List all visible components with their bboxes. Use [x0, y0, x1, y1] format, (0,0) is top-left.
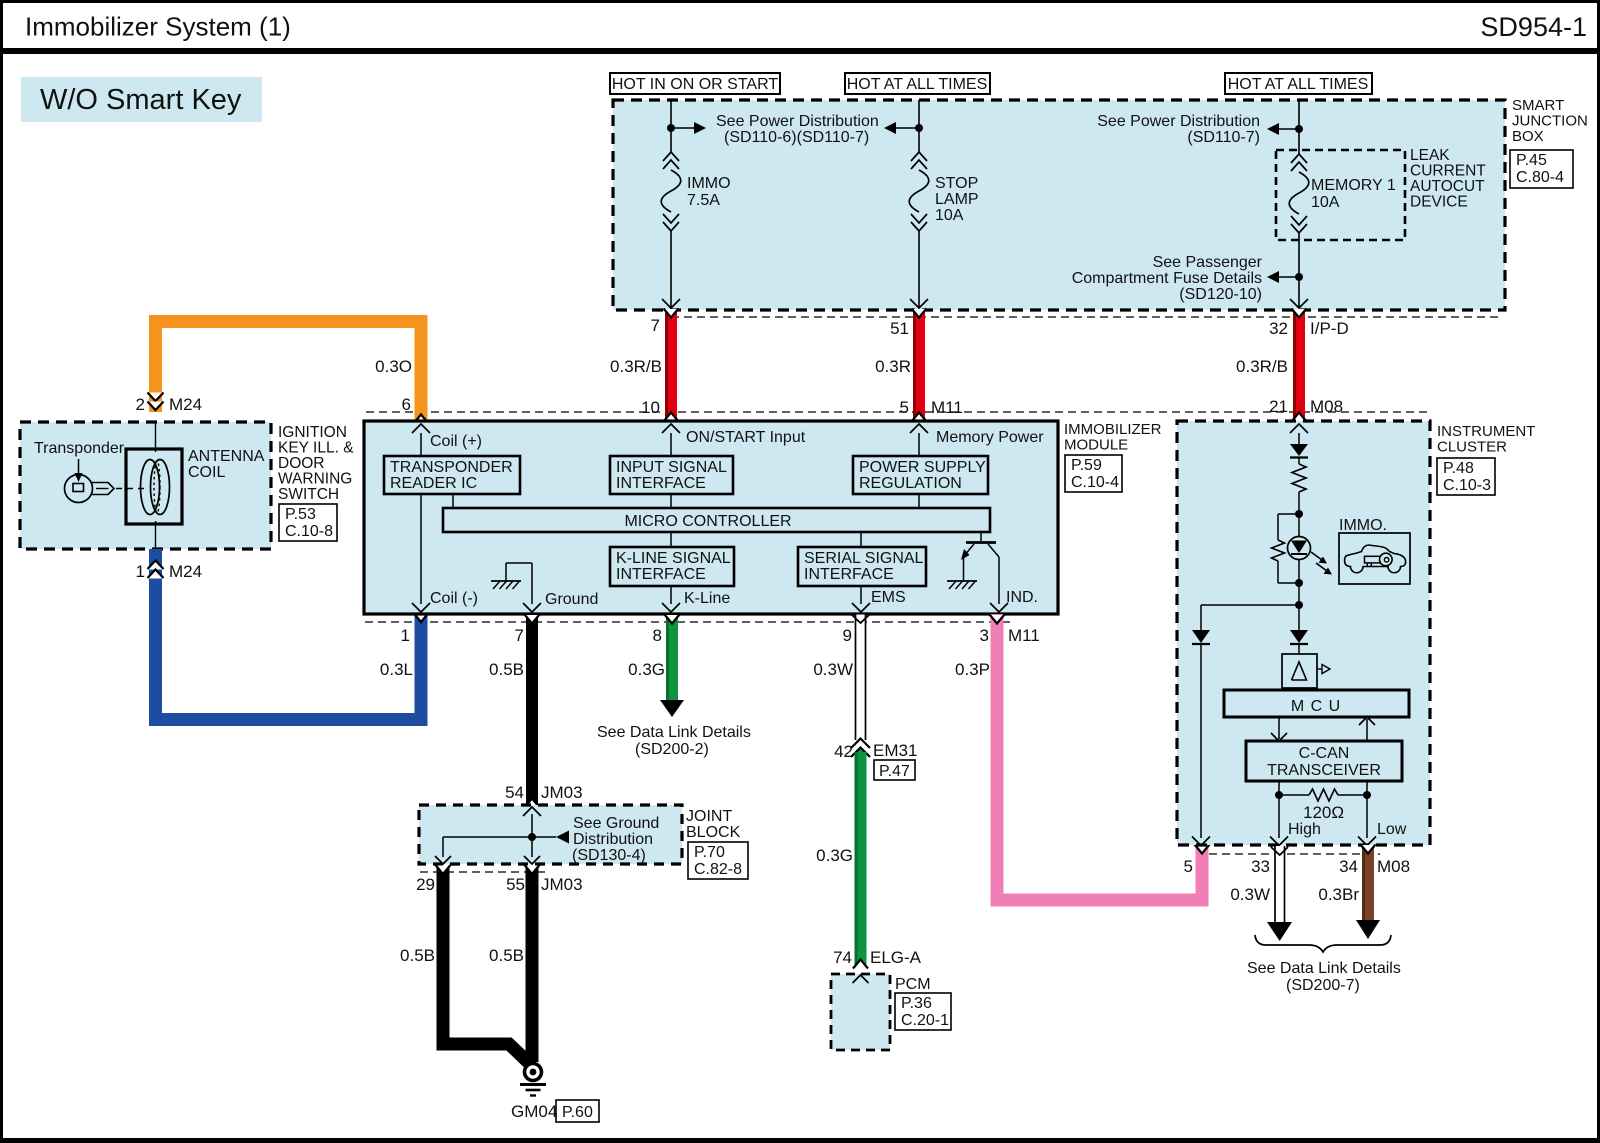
- wire 0.5B pin55 to ground GM04 (black): [526, 866, 539, 1062]
- input signal interface box: [610, 456, 733, 494]
- svg-text:M24: M24: [169, 562, 202, 581]
- svg-text:High: High: [1288, 821, 1321, 838]
- svg-text:See Data Link Details: See Data Link Details: [1247, 960, 1401, 977]
- wire through coil: [155, 422, 157, 452]
- svg-text:C.20-1: C.20-1: [901, 1012, 949, 1029]
- svg-text:SMART: SMART: [1512, 97, 1564, 114]
- module top pin arrows: [412, 424, 430, 433]
- svg-text:0.3G: 0.3G: [628, 660, 665, 679]
- dashed axis key to coil: [116, 488, 147, 490]
- wire 0.3L antenna pin1 to module pin1 (blue): [156, 549, 422, 720]
- arrow to power distribution SD110-7: [1279, 128, 1299, 130]
- node junction led top: [1295, 510, 1303, 518]
- immobilizer module box: [364, 421, 1058, 614]
- ground GM04: [525, 1064, 542, 1081]
- svg-text:DEVICE: DEVICE: [1410, 194, 1468, 211]
- svg-text:INSTRUMENT: INSTRUMENT: [1437, 423, 1535, 440]
- svg-text:ELG-A: ELG-A: [870, 948, 922, 967]
- svg-text:0.3W: 0.3W: [813, 660, 853, 679]
- antenna coil box: [126, 449, 182, 524]
- fuse STOP LAMP 10A: [911, 152, 927, 161]
- svg-text:Ground: Ground: [545, 591, 598, 608]
- svg-text:C.80-4: C.80-4: [1516, 169, 1564, 186]
- arrow to passenger compartment fuse details: [1279, 276, 1299, 278]
- svg-text:3: 3: [980, 626, 989, 645]
- serial signal interface box: [798, 547, 926, 586]
- arrow C-CAN to MCU: [1366, 719, 1368, 741]
- PCM box: [831, 974, 890, 1050]
- svg-text:21: 21: [1269, 397, 1288, 416]
- svg-text:C.10-8: C.10-8: [285, 523, 333, 540]
- svg-text:P.47: P.47: [879, 763, 910, 780]
- svg-text:HOT AT ALL TIMES: HOT AT ALL TIMES: [1228, 76, 1369, 93]
- module internal ground circuit: [531, 563, 533, 604]
- node CAN-H: [1275, 791, 1283, 799]
- svg-text:MEMORY 1: MEMORY 1: [1311, 177, 1396, 194]
- svg-text:0.3L: 0.3L: [380, 660, 413, 679]
- svg-text:9: 9: [843, 626, 852, 645]
- svg-text:P.59: P.59: [1071, 457, 1102, 474]
- svg-text:JUNCTION: JUNCTION: [1512, 113, 1588, 130]
- node junction 3: [1295, 601, 1303, 609]
- wire fuse IMMO to pin 7: [670, 231, 672, 308]
- svg-text:M24: M24: [169, 395, 202, 414]
- wire 0.3R pin51 to pin5 M11 (red): [913, 310, 925, 420]
- svg-text:55: 55: [506, 875, 525, 894]
- coil ellipses: [141, 460, 160, 515]
- svg-text:10: 10: [641, 398, 660, 417]
- node junction C2: [1295, 273, 1303, 281]
- svg-text:JM03: JM03: [541, 875, 583, 894]
- svg-text:CURRENT: CURRENT: [1410, 163, 1486, 180]
- page ref P.59 C.10-4: [1065, 455, 1122, 492]
- svg-text:M11: M11: [1008, 626, 1040, 645]
- svg-text:MODULE: MODULE: [1064, 437, 1128, 454]
- svg-text:HOT AT ALL TIMES: HOT AT ALL TIMES: [847, 76, 988, 93]
- svg-text:See Data Link Details: See Data Link Details: [597, 724, 751, 741]
- micro controller box: [443, 508, 990, 532]
- svg-text:5: 5: [900, 398, 909, 417]
- LED immo indicator: [1288, 537, 1311, 560]
- svg-text:I/P-D: I/P-D: [1310, 319, 1349, 338]
- svg-text:BLOCK: BLOCK: [686, 824, 741, 841]
- svg-text:C.10-4: C.10-4: [1071, 474, 1119, 491]
- resistor 120 ohm: [1279, 794, 1309, 796]
- svg-text:IND.: IND.: [1006, 589, 1038, 606]
- svg-text:TRANSPONDER: TRANSPONDER: [390, 459, 513, 476]
- svg-text:TRANSCEIVER: TRANSCEIVER: [1267, 762, 1381, 779]
- node junction 2: [1295, 579, 1303, 587]
- wire 0.3Br CAN low (brown): [1362, 846, 1374, 920]
- wire 0.3R/B pin7 to pin10 (red): [665, 310, 677, 420]
- car icon: [1345, 545, 1406, 573]
- svg-text:P.60: P.60: [562, 1104, 593, 1121]
- svg-text:120Ω: 120Ω: [1303, 803, 1344, 822]
- svg-text:0.3P: 0.3P: [955, 660, 990, 679]
- svg-text:5: 5: [1184, 857, 1193, 876]
- svg-text:1: 1: [136, 562, 145, 581]
- svg-text:Memory Power: Memory Power: [936, 429, 1044, 446]
- label HOT AT ALL TIMES (right): [1225, 73, 1372, 94]
- cluster entry arrow pin21: [1290, 424, 1308, 433]
- svg-text:32: 32: [1269, 319, 1288, 338]
- connector dashed line below joint block (early): [420, 871, 545, 873]
- MCU box: [1224, 690, 1409, 717]
- connector dashed line below cluster (early): [1196, 853, 1380, 855]
- svg-text:10A: 10A: [1311, 194, 1340, 211]
- svg-text:P.48: P.48: [1443, 460, 1474, 477]
- buffer amp U1: [1282, 654, 1317, 688]
- svg-text:Transponder: Transponder: [34, 440, 125, 457]
- svg-text:(SD130-4): (SD130-4): [572, 847, 646, 864]
- page ref P.36 C.20-1: [895, 993, 951, 1030]
- connector M24 pin1 chevrons: [148, 561, 164, 570]
- svg-text:C.10-3: C.10-3: [1443, 477, 1491, 494]
- instrument cluster box: [1177, 421, 1430, 845]
- wire 0.5B pin29 to ground (black): [443, 866, 531, 1065]
- power supply regulation box: [853, 456, 988, 494]
- svg-text:IGNITION: IGNITION: [278, 424, 347, 441]
- connector EM31 pin42 chevrons: [851, 739, 870, 749]
- module internal wires: [420, 433, 422, 456]
- page ref P.48 C.10-3: [1437, 458, 1495, 495]
- svg-text:M08: M08: [1377, 857, 1410, 876]
- svg-text:JOINT: JOINT: [686, 808, 732, 825]
- svg-text:ON/START Input: ON/START Input: [686, 429, 806, 446]
- node junction A: [667, 124, 675, 132]
- svg-text:0.3R: 0.3R: [875, 357, 911, 376]
- wire 0.3G K-line pin8 (green): [666, 616, 678, 701]
- wire from HOT AT ALL TIMES to fuse MEMORY 1: [1298, 100, 1300, 154]
- svg-text:EMS: EMS: [871, 589, 906, 606]
- connector dashed line below module (early): [365, 621, 1010, 623]
- svg-text:Low: Low: [1377, 821, 1407, 838]
- C-CAN transceiver box: [1246, 741, 1402, 781]
- svg-text:STOP: STOP: [935, 175, 978, 192]
- svg-text:COIL: COIL: [188, 464, 225, 481]
- wire 0.3W EMS pin9 (white): [855, 615, 866, 741]
- transponder reader ic box: [384, 456, 520, 494]
- svg-text:Distribution: Distribution: [573, 831, 653, 848]
- svg-text:See Ground: See Ground: [573, 815, 659, 832]
- svg-text:JM03: JM03: [541, 783, 583, 802]
- transponder key icon: [65, 475, 93, 503]
- svg-text:2: 2: [136, 395, 145, 414]
- svg-text:P.70: P.70: [694, 844, 725, 861]
- svg-text:(SD120-10): (SD120-10): [1179, 286, 1262, 303]
- svg-text:0.5B: 0.5B: [489, 946, 524, 965]
- fuse MEMORY 1 10A: [1291, 154, 1307, 163]
- branch to pin5: [1201, 604, 1299, 606]
- connector dashed line above module: [366, 411, 1430, 413]
- svg-text:C.82-8: C.82-8: [694, 861, 742, 878]
- diode D1: [1290, 444, 1308, 456]
- svg-text:Compartment Fuse Details: Compartment Fuse Details: [1072, 270, 1262, 287]
- parallel resistor branch: [1278, 513, 1299, 515]
- svg-text:INTERFACE: INTERFACE: [616, 566, 706, 583]
- svg-text:(SD200-7): (SD200-7): [1286, 977, 1360, 994]
- svg-text:P.53: P.53: [285, 506, 316, 523]
- svg-text:IMMO: IMMO: [687, 175, 731, 192]
- CAN high/low wires: [1278, 781, 1280, 838]
- svg-text:7: 7: [515, 626, 524, 645]
- svg-text:33: 33: [1251, 857, 1270, 876]
- svg-text:P.45: P.45: [1516, 152, 1547, 169]
- svg-text:0.3R/B: 0.3R/B: [1236, 357, 1288, 376]
- svg-text:CLUSTER: CLUSTER: [1437, 439, 1507, 456]
- page ref P.60: [556, 1100, 599, 1122]
- wire 0.3R/B pin32 I/P-D to pin21 M08 (red): [1293, 310, 1305, 420]
- leak current autocut device box: [1276, 150, 1405, 240]
- svg-text:EM31: EM31: [873, 741, 917, 760]
- W/O Smart Key label: [21, 77, 262, 122]
- svg-text:SERIAL SIGNAL: SERIAL SIGNAL: [804, 550, 924, 567]
- svg-text:(SD110-7): (SD110-7): [1187, 129, 1260, 146]
- svg-text:(SD110-6)(SD110-7): (SD110-6)(SD110-7): [724, 129, 869, 146]
- svg-text:0.3W: 0.3W: [1230, 885, 1270, 904]
- wire from HOT AT ALL TIMES to fuse STOP LAMP: [918, 100, 920, 152]
- svg-text:Coil (+): Coil (+): [430, 433, 482, 450]
- svg-text:REGULATION: REGULATION: [859, 475, 962, 492]
- wire 0.3P IND pin3 M11 to cluster pin5 (pink): [997, 614, 1202, 900]
- svg-text:See Passenger: See Passenger: [1153, 254, 1263, 271]
- svg-text:6: 6: [402, 395, 411, 414]
- svg-text:SD954-1: SD954-1: [1480, 12, 1587, 42]
- node CAN-L: [1363, 791, 1371, 799]
- label HOT IN ON OR START: [610, 73, 780, 94]
- joint block box: [419, 805, 682, 864]
- svg-text:See Power Distribution: See Power Distribution: [1097, 113, 1260, 130]
- wire 0.3G EM31 to PCM pin74 (green): [855, 752, 867, 966]
- page ref P.53 C.10-8: [279, 504, 337, 541]
- fuse IMMO 7.5A: [663, 152, 679, 161]
- svg-text:AUTOCUT: AUTOCUT: [1410, 178, 1485, 195]
- svg-text:M08: M08: [1310, 397, 1343, 416]
- svg-text:51: 51: [890, 319, 909, 338]
- node junction C1: [1295, 125, 1303, 133]
- svg-text:K-LINE SIGNAL: K-LINE SIGNAL: [616, 550, 731, 567]
- svg-text:INPUT SIGNAL: INPUT SIGNAL: [616, 459, 727, 476]
- svg-text:PCM: PCM: [895, 976, 931, 993]
- svg-text:0.3O: 0.3O: [375, 357, 412, 376]
- svg-text:LEAK: LEAK: [1410, 147, 1450, 164]
- svg-text:Coil (-): Coil (-): [430, 590, 478, 607]
- svg-text:7: 7: [651, 316, 660, 335]
- car key glyph: [1365, 556, 1381, 563]
- svg-text:M C U: M C U: [1291, 698, 1341, 715]
- SJB page ref P.45 C.80-4: [1510, 150, 1573, 188]
- brace see data link details: [1255, 935, 1391, 952]
- svg-text:0.3G: 0.3G: [816, 846, 853, 865]
- svg-text:54: 54: [505, 783, 524, 802]
- wire from HOT IN ON OR START to fuse IMMO: [670, 100, 672, 152]
- svg-text:1: 1: [401, 626, 410, 645]
- title separator: [0, 48, 1600, 54]
- diode D2 (left branch): [1192, 630, 1210, 643]
- connector JM03 pin54 chevrons: [525, 798, 540, 807]
- k-line signal interface box: [610, 547, 734, 586]
- wire fuse MEMORY1 to pin 32: [1298, 233, 1300, 308]
- svg-text:Immobilizer System (1): Immobilizer System (1): [25, 12, 291, 42]
- wire 0.3W CAN high (white): [1275, 846, 1286, 922]
- arrow to ground distribution: [532, 836, 556, 838]
- page ref P.70 C.82-8: [688, 842, 748, 879]
- ground (transistor emitter): [947, 580, 977, 582]
- svg-text:74: 74: [833, 948, 852, 967]
- arrow to power distribution (left): [896, 127, 919, 129]
- svg-text:34: 34: [1339, 857, 1358, 876]
- svg-text:M11: M11: [931, 398, 963, 417]
- svg-text:ANTENNA: ANTENNA: [188, 448, 265, 465]
- wire 0.3G EM31 to PCM pin74 (green, top tip): [855, 748, 867, 757]
- svg-text:0.3Br: 0.3Br: [1318, 885, 1359, 904]
- svg-text:WARNING: WARNING: [278, 471, 352, 488]
- svg-text:7.5A: 7.5A: [687, 192, 720, 209]
- transistor Q (indicator driver): [980, 532, 982, 541]
- svg-text:MICRO CONTROLLER: MICRO CONTROLLER: [624, 513, 791, 530]
- svg-text:LAMP: LAMP: [935, 191, 979, 208]
- svg-text:W/O Smart Key: W/O Smart Key: [40, 84, 242, 116]
- arrow to power distribution (right): [671, 127, 695, 129]
- svg-text:READER IC: READER IC: [390, 475, 477, 492]
- svg-text:29: 29: [416, 875, 435, 894]
- svg-text:IMMO.: IMMO.: [1339, 517, 1387, 534]
- joint block internal wires: [531, 814, 533, 837]
- resistor R1 (series): [1292, 464, 1306, 492]
- connector M24 pin2 chevrons: [148, 393, 164, 402]
- svg-text:BOX: BOX: [1512, 128, 1544, 145]
- svg-text:KEY ILL. &: KEY ILL. &: [278, 440, 354, 457]
- svg-text:SWITCH: SWITCH: [278, 486, 339, 503]
- node joint block junction: [528, 833, 536, 841]
- smart junction box SJB: [613, 100, 1505, 310]
- immo car icon box: [1339, 533, 1410, 584]
- page ref P.47: [874, 760, 915, 780]
- svg-text:0.3R/B: 0.3R/B: [610, 357, 662, 376]
- svg-text:C-CAN: C-CAN: [1299, 745, 1350, 762]
- ignition key ill. and door warning switch box: [20, 422, 271, 549]
- diode D3 (main): [1290, 630, 1308, 643]
- joint block entry arrow: [523, 807, 541, 816]
- node junction B: [915, 124, 923, 132]
- label HOT AT ALL TIMES (center): [845, 73, 990, 94]
- wire 0.3O antenna pin2 to module pin6 (orange): [156, 322, 422, 423]
- connector dashed line below SJB: [671, 316, 1500, 318]
- svg-text:K-Line: K-Line: [684, 590, 730, 607]
- svg-text:8: 8: [653, 626, 662, 645]
- wire fuse STOP LAMP to pin 51: [918, 231, 920, 308]
- svg-text:INTERFACE: INTERFACE: [616, 475, 706, 492]
- svg-text:POWER SUPPLY: POWER SUPPLY: [859, 459, 986, 476]
- wire 0.5B module pin7 to joint block pin54 (black): [526, 616, 538, 807]
- svg-text:GM04: GM04: [511, 1102, 557, 1121]
- svg-text:See Power Distribution: See Power Distribution: [716, 113, 879, 130]
- svg-text:0.5B: 0.5B: [489, 660, 524, 679]
- svg-text:10A: 10A: [935, 207, 964, 224]
- svg-text:IMMOBILIZER: IMMOBILIZER: [1064, 421, 1162, 438]
- svg-text:42: 42: [834, 742, 853, 761]
- svg-text:(SD200-2): (SD200-2): [635, 741, 709, 758]
- svg-text:DOOR: DOOR: [278, 455, 325, 472]
- svg-text:P.36: P.36: [901, 995, 932, 1012]
- LED flash arrows: [1311, 552, 1322, 560]
- svg-text:0.5B: 0.5B: [400, 946, 435, 965]
- page frame: [0, 0, 1600, 3]
- svg-text:INTERFACE: INTERFACE: [804, 566, 894, 583]
- key shaft: [92, 483, 115, 495]
- ground (module, pin7 side): [491, 580, 521, 582]
- arrow MCU to C-CAN: [1278, 717, 1280, 739]
- svg-text:HOT IN ON OR START: HOT IN ON OR START: [612, 76, 778, 93]
